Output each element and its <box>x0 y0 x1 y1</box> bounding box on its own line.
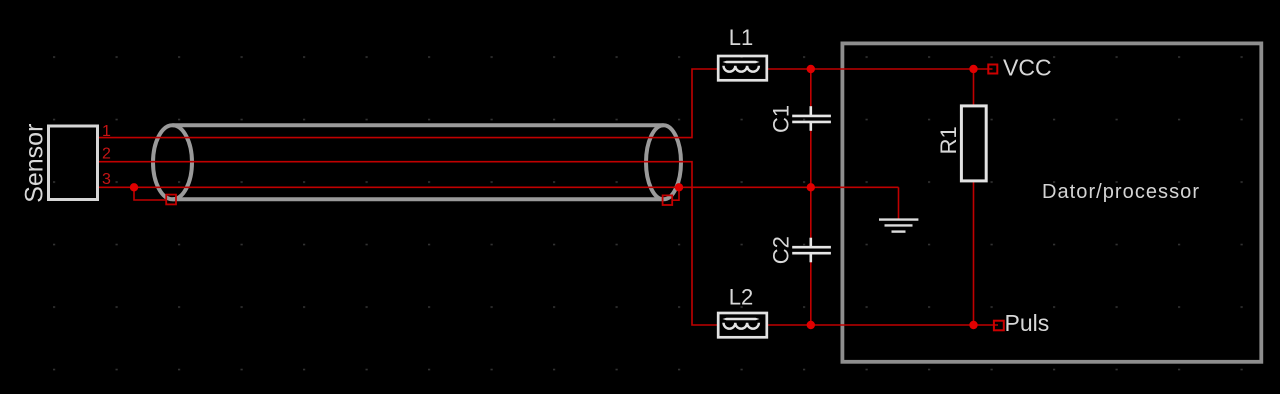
junction node Puls at C2 <box>807 321 815 329</box>
svg-text:L1: L1 <box>729 25 753 50</box>
junction node shield tap left <box>130 183 138 191</box>
inductor L2 <box>718 313 767 337</box>
wire C1 bottom to node <box>810 131 812 188</box>
capacitor C2 <box>792 238 831 263</box>
svg-text:L2: L2 <box>729 285 753 310</box>
block U2 Dator/processor <box>842 43 1261 361</box>
svg-text:3: 3 <box>102 171 111 188</box>
junction node Puls at R1 <box>969 321 977 329</box>
svg-text:Sensor: Sensor <box>21 124 49 203</box>
pin Puls terminal square <box>994 321 1004 331</box>
svg-text:R1: R1 <box>936 126 961 154</box>
shielded cable W1 <box>153 125 681 199</box>
wire VCC node to R1 top <box>973 69 975 105</box>
shield terminal square left <box>166 195 176 205</box>
wire sensor pin2 to L2 <box>99 162 717 325</box>
wire sensor pin3 to ground <box>99 186 899 188</box>
junction node VCC at C1 <box>807 65 815 73</box>
svg-text:VCC: VCC <box>1003 54 1052 80</box>
shield terminal square right <box>663 195 673 205</box>
wire C2 bottom to Puls net <box>810 262 812 325</box>
capacitor C1 <box>792 106 831 131</box>
resistor R1 <box>961 106 986 181</box>
svg-text:Dator/processor: Dator/processor <box>1042 181 1200 203</box>
svg-text:Puls: Puls <box>1005 310 1050 336</box>
junction node gnd net at C chain <box>807 183 815 191</box>
wire shield tap left <box>134 187 166 200</box>
inductor L1 <box>718 56 767 80</box>
wire ground stub <box>898 187 900 218</box>
ground <box>879 220 918 232</box>
connector J1 Sensor body <box>49 126 98 200</box>
pin VCC terminal square <box>988 65 997 74</box>
wire C1 top <box>810 69 812 107</box>
wire sensor pin1 to L1 <box>99 69 717 138</box>
wire L1 to VCC pin <box>768 68 993 70</box>
wire node to C2 top <box>810 187 812 238</box>
svg-text:2: 2 <box>102 146 111 163</box>
wire L2 to Puls pin <box>768 324 998 326</box>
wire shield tap right <box>672 187 679 200</box>
wire R1 bottom to Puls net <box>973 182 975 325</box>
svg-text:C1: C1 <box>769 105 794 133</box>
junction node VCC at R1 <box>969 65 977 73</box>
svg-text:C2: C2 <box>769 236 794 264</box>
junction node shield tap right <box>675 183 683 191</box>
